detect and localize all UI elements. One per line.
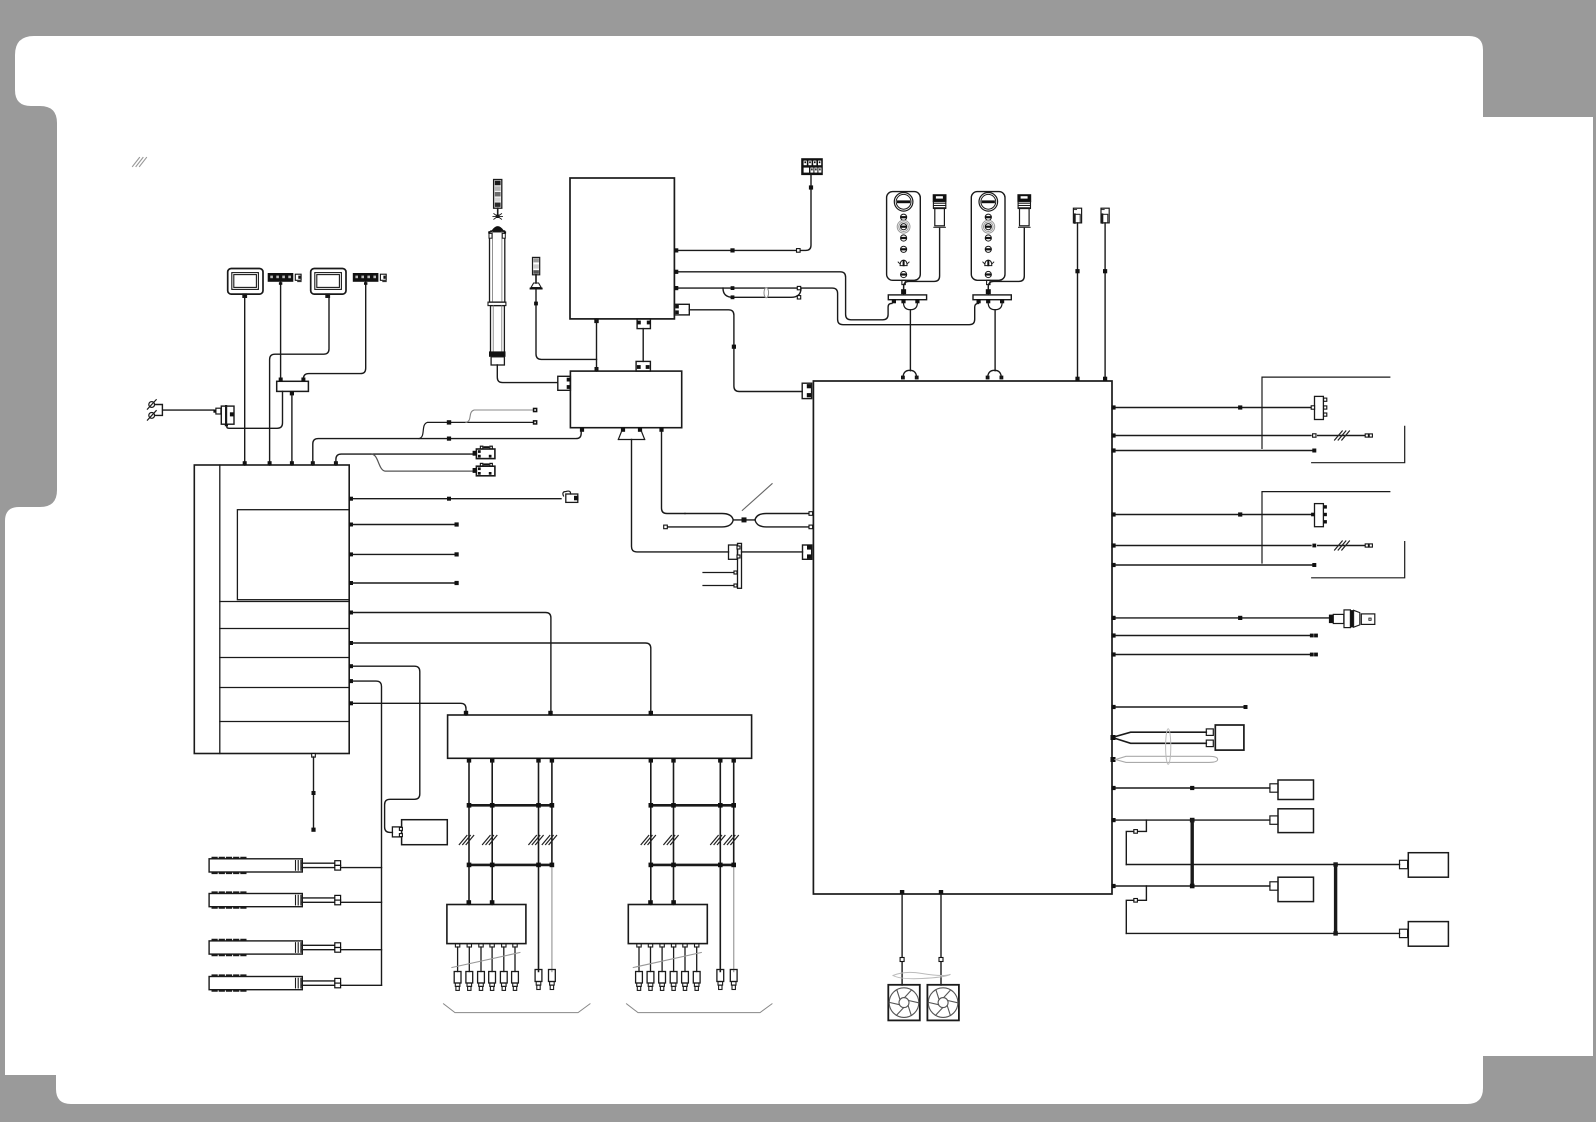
pin T1 right — [674, 248, 678, 252]
wire B1 to module B2 — [353, 666, 420, 832]
wire BB to fan F1 — [901, 894, 903, 985]
splice on B1 bottom wire — [312, 791, 316, 795]
wire junction J1 to antenna module — [227, 391, 283, 428]
pin B3 bottom — [467, 758, 471, 762]
engine ECU box T1 — [570, 178, 674, 319]
spark plug boot — [695, 944, 699, 947]
ignition harness wires group 1 — [468, 762, 470, 905]
splice bold — [1190, 818, 1195, 823]
pin J1-1 — [279, 378, 283, 382]
mast base block — [489, 351, 506, 356]
splice hatch — [542, 836, 556, 845]
crossbar bus 2b — [651, 864, 734, 867]
wire BB fused lead 2 — [1116, 545, 1368, 547]
wire J2 to twisted pair — [662, 432, 686, 514]
relay box K3 — [1278, 809, 1314, 833]
strain relief arch — [901, 376, 905, 380]
wire beacon to T1/J2 vertical — [536, 290, 597, 360]
bold feed bar 2 — [1334, 865, 1337, 934]
pin coil top — [490, 900, 495, 905]
junction box J2 — [570, 371, 681, 428]
terminal end — [455, 522, 459, 526]
spark plug boot — [513, 944, 517, 947]
under brace 1 — [444, 1004, 591, 1013]
aux tap line 2 — [466, 410, 533, 422]
splice below keypad — [809, 185, 813, 189]
pin J2 bottom — [580, 428, 584, 432]
rocker switch SW2 — [1101, 208, 1109, 223]
terminal end — [455, 581, 459, 585]
ground terminal G2 — [149, 413, 155, 419]
pin B3 top — [548, 711, 552, 715]
branch to fuse tap 2 — [1138, 886, 1147, 900]
splice — [1190, 786, 1194, 790]
pin BB right — [1111, 512, 1115, 516]
splice — [1075, 269, 1079, 273]
shield capsule — [764, 288, 769, 298]
splice hatch — [664, 836, 678, 845]
pendant terminal bar — [888, 295, 926, 300]
stack light stem and coupling — [497, 208, 499, 215]
pendant control P1 — [887, 192, 921, 281]
connector bump under T1 — [637, 319, 650, 329]
inline connector pair — [335, 895, 341, 900]
strain relief arch — [986, 376, 990, 380]
pin B3 bottom — [718, 758, 722, 762]
wire J2 gland to bus bar — [632, 440, 729, 552]
inline connector pair — [335, 943, 341, 948]
pin B1 bottom — [312, 754, 316, 758]
pendant plug connector — [1018, 195, 1030, 227]
wire pendant to main box — [909, 310, 911, 371]
probe sensor pin — [1111, 735, 1116, 740]
microswitch — [473, 463, 495, 476]
shielded cable return loop — [723, 288, 801, 297]
rocker switch SW1 — [1073, 208, 1081, 223]
spark plug boot — [683, 944, 687, 947]
connector stub BB left lower — [803, 545, 812, 559]
pin BB top — [1103, 377, 1107, 381]
aux tap line 1 — [419, 422, 533, 438]
pin coil top — [467, 900, 472, 905]
wire mast to J2 stub — [497, 365, 558, 383]
pin BB right — [1111, 818, 1115, 822]
twist center link — [733, 519, 755, 521]
harness slash — [452, 953, 520, 968]
inline connector pair — [335, 978, 341, 983]
pin T1 bottom — [594, 319, 598, 323]
button strip panel S2 — [353, 273, 386, 282]
wire plug to pendant pin — [988, 229, 1024, 290]
inline connector pair — [335, 861, 341, 866]
cut mark — [1335, 541, 1350, 550]
wire strip to trunk — [341, 867, 382, 869]
revision hatch mark — [133, 158, 147, 167]
terminal end — [1312, 449, 1316, 453]
strip lead wires — [302, 898, 335, 902]
pin BB right — [1111, 616, 1115, 620]
ignition harness wires group 2 — [650, 762, 652, 905]
wire B1 to diagnostic connector CN1 — [353, 498, 561, 500]
glow probe capsule — [1111, 757, 1116, 762]
control box B1 — [194, 465, 349, 754]
pin BB right — [1111, 405, 1115, 409]
pin J1-2 — [301, 378, 305, 382]
bracket group 2 top rail — [1262, 492, 1390, 563]
pin B1 right — [349, 641, 353, 645]
wire fuse tap 1 to load line — [1126, 831, 1134, 864]
twisted pair lower conductor — [667, 520, 733, 527]
pin B3 bottom — [490, 758, 494, 762]
stack light L2 — [494, 180, 502, 209]
crossbar bus 1b — [469, 864, 552, 867]
connector stub BB left upper — [802, 383, 811, 398]
junction box J1 — [277, 381, 309, 391]
wire monitor M1 to control box — [244, 297, 246, 465]
connector bump on J2 top — [636, 361, 650, 371]
twisted pair right conductors — [755, 514, 809, 527]
wire T1 bump to J2 bump — [642, 329, 644, 362]
bus bar B4 — [738, 543, 742, 588]
stub — [1400, 929, 1408, 937]
branch to microswitch SW4 — [372, 454, 473, 471]
wire B1 to relay bar pin 3 — [353, 643, 651, 715]
pin BB right — [1111, 884, 1115, 888]
pin B1 right — [349, 664, 353, 668]
stub — [1270, 882, 1278, 890]
splice hatch — [724, 836, 738, 845]
mast cylinder upper — [488, 231, 506, 302]
wire T1 to pendant P1 — [678, 272, 892, 320]
shielded cable upper conductor — [678, 288, 979, 325]
pin J2 bottom — [621, 428, 625, 432]
crossbar bus 1a — [469, 804, 552, 807]
pin J2 top — [595, 367, 599, 371]
cut mark — [1335, 431, 1350, 440]
wire strip to trunk — [341, 984, 382, 986]
splice — [1238, 512, 1242, 516]
splice hatch — [641, 836, 655, 845]
wire B1 to relay bar pin 2 — [353, 613, 551, 716]
sensor strip bar R1 — [209, 858, 302, 873]
pin B1 top — [243, 461, 247, 465]
load box M1 — [1408, 853, 1448, 878]
wire B1 trunk to sensor strips — [353, 681, 382, 985]
bracket group 1 bottom rail — [1312, 426, 1405, 462]
splice — [730, 248, 734, 252]
strip lead wires — [302, 863, 335, 867]
main harness box BB — [813, 381, 1112, 894]
load line 1 — [1126, 864, 1399, 866]
diagnostic pigtail connector CN1 — [563, 491, 579, 502]
wire junction J1 to control box — [291, 395, 293, 465]
bracket group 2 bottom rail — [1312, 542, 1405, 578]
wire BB fused lead 1 — [1116, 435, 1368, 437]
cable loop marks — [893, 972, 950, 975]
microswitch — [473, 446, 495, 459]
wire BB spare 635 — [1116, 635, 1312, 637]
spare tap lines on bus bar — [703, 573, 735, 586]
display monitor M1 — [228, 269, 263, 298]
stub — [1270, 816, 1278, 824]
pin BB bottom 2 — [939, 890, 943, 894]
twisted pair upper conductor — [685, 514, 733, 520]
wire monitor M2 to control box — [270, 297, 329, 465]
pin B1 top — [311, 461, 315, 465]
pin B1 top — [268, 461, 272, 465]
pin J1-3 — [290, 391, 294, 395]
wire B1 to microswitch SW3 — [336, 454, 473, 465]
terminal end — [455, 552, 459, 556]
pin B1 right — [349, 679, 353, 683]
pin coil top — [648, 900, 653, 905]
cable loop under bar — [904, 303, 918, 309]
branch to fuse tap 1 — [1138, 820, 1147, 831]
wire BB to connector CN2 — [1116, 407, 1313, 409]
wire BB spare lead 2 — [1116, 564, 1313, 566]
strip lead wires — [302, 945, 335, 949]
sensor strip bar R4 — [209, 975, 302, 990]
sensor strip bar R2 — [209, 892, 302, 907]
connector CN3 3-pin — [1315, 504, 1324, 527]
pin B1 right — [349, 701, 353, 705]
antenna module U2 — [213, 406, 234, 426]
terminal with dot — [533, 408, 538, 413]
spark plug boot — [490, 944, 494, 947]
pin T1 right — [674, 270, 678, 274]
spark plug boot — [671, 944, 675, 947]
connector CN2 3-pin — [1315, 396, 1324, 419]
wire switch to main box — [1077, 223, 1079, 377]
display monitor M2 — [311, 269, 346, 298]
pin BB right — [1111, 543, 1115, 547]
accessory power socket X1 — [1329, 610, 1375, 628]
twist junction — [742, 517, 747, 522]
wire BB to connector CN3 — [1116, 514, 1313, 516]
spark plug boot — [502, 944, 506, 947]
wire BB to fan F2 — [940, 894, 942, 985]
ground terminal G1 — [149, 402, 155, 408]
beacon lamp L1 — [530, 257, 543, 289]
harness slash — [633, 953, 701, 968]
pin BB bottom 1 — [900, 890, 904, 894]
stub — [1400, 860, 1408, 868]
pin B3 bottom — [732, 758, 736, 762]
pin coil top — [671, 900, 676, 905]
splice — [1103, 269, 1107, 273]
wire BB spare lead 1 — [1116, 450, 1313, 452]
pin T1 right — [674, 286, 678, 290]
pin B1 right — [349, 523, 353, 527]
strip lead wires — [302, 981, 335, 985]
pin BB right — [1111, 448, 1115, 452]
module B2 — [402, 820, 448, 845]
spark plug boot — [637, 944, 641, 947]
splice bold — [1190, 884, 1195, 889]
relay bar B3 — [448, 715, 752, 758]
wire BB spare 654 — [1116, 654, 1312, 656]
pin B3 bottom — [536, 758, 540, 762]
cable tie ellipse — [1166, 729, 1171, 765]
pin B3 bottom — [671, 758, 675, 762]
pin B1 top — [290, 461, 294, 465]
sensor strip bar R3 — [209, 940, 302, 955]
wire B1 spare 3 — [353, 582, 457, 584]
pin BB top — [1075, 377, 1079, 381]
spark plug boot — [455, 944, 459, 947]
splice — [1238, 405, 1242, 409]
crossbar bus 2a — [651, 804, 734, 807]
splice bold — [1333, 862, 1337, 866]
load box M2 — [1408, 922, 1448, 947]
spark plug boot — [648, 944, 652, 947]
relay box K2 — [1278, 780, 1314, 800]
pendant plug connector — [933, 195, 945, 227]
connector stub on J2 left — [558, 376, 571, 390]
bracket group 1 top rail — [1262, 377, 1390, 448]
antenna dome — [492, 227, 503, 231]
bold feed bar 1 — [1190, 820, 1193, 886]
wire strip to trunk — [341, 949, 382, 951]
terminal end — [1244, 705, 1248, 709]
wire BB spare 707 — [1116, 706, 1245, 708]
terminal with dot — [533, 420, 538, 425]
ignition coil pack T1 — [447, 905, 526, 944]
wire BB to accessory socket — [1116, 617, 1329, 619]
pin B3 bottom — [550, 758, 554, 762]
pin B1 right — [349, 611, 353, 615]
cooling fan — [888, 985, 920, 1021]
wire keypad to T1 — [678, 175, 811, 251]
pin BB right — [1111, 705, 1115, 709]
splice — [447, 420, 451, 424]
pin B3 top — [649, 711, 653, 715]
wire J2 pin to B1 riser — [313, 432, 581, 465]
wire BB to relay K2 — [1116, 787, 1270, 789]
terminal end — [311, 828, 315, 832]
slash mark — [742, 484, 772, 511]
mast collar — [488, 302, 506, 306]
terminal end — [1312, 563, 1316, 567]
load line 2 — [1126, 932, 1399, 934]
splice hatch — [711, 836, 725, 845]
wire T1 to J2 — [596, 319, 598, 371]
wire strip S1 to junction J1 — [280, 282, 282, 378]
pin J2 bottom — [659, 428, 663, 432]
spark plug boot — [660, 944, 664, 947]
probe leads — [1116, 732, 1207, 743]
cooling fan — [927, 985, 959, 1021]
splice hatch — [529, 836, 543, 845]
pin B1 right — [349, 552, 353, 556]
keypad K1 — [802, 159, 822, 175]
wire T1 stub to main harness — [689, 310, 802, 392]
pin B3 top — [464, 711, 468, 715]
wire BB to relay K3 — [1116, 819, 1270, 821]
spark plug boot — [479, 944, 483, 947]
cable gland under J2 — [618, 432, 644, 440]
relay box K4 — [1278, 877, 1314, 901]
splice hatch — [459, 836, 473, 845]
wire B1 to relay bar pin 1 — [353, 703, 466, 715]
wire B1 spare 2 — [353, 553, 457, 555]
pin BB right — [1111, 633, 1115, 637]
splice — [447, 437, 451, 441]
pin B1 top — [334, 461, 338, 465]
splice on beacon wire — [534, 302, 538, 306]
power plug leads group1 — [535, 970, 542, 982]
stub — [1270, 784, 1278, 792]
pin J2 bottom — [638, 428, 642, 432]
pin BB right — [1111, 786, 1115, 790]
cable loop under bar — [988, 303, 1002, 309]
ignition coil pack T2 — [628, 905, 707, 944]
wire B1 bottom stub — [313, 757, 315, 830]
probe module box — [1215, 725, 1244, 750]
wire ground tie — [155, 405, 214, 416]
splice bold — [1333, 931, 1337, 935]
connector stub on T1 right — [674, 304, 689, 315]
pendant terminal bar — [973, 295, 1011, 300]
wire B1 spare 1 — [353, 524, 457, 526]
divider lines of B1 — [220, 602, 349, 722]
splice — [732, 345, 736, 349]
pin BB right — [1111, 563, 1115, 567]
pendant control P2 — [971, 192, 1005, 281]
wire bus bar to big box stub — [742, 551, 803, 553]
wire pendant to main box — [994, 310, 996, 371]
mast cylinder lower — [491, 306, 505, 353]
splice — [1238, 616, 1242, 620]
wire plug to pendant pin — [904, 229, 940, 290]
pin BB right — [1111, 433, 1115, 437]
wire switch to main box — [1104, 223, 1106, 377]
wire strip to trunk — [341, 901, 382, 903]
wire fuse tap 2 to load line 2 — [1126, 900, 1134, 933]
button strip panel S1 — [268, 273, 301, 282]
pin B1 right — [349, 497, 353, 501]
splice — [447, 497, 451, 501]
spark plug boot — [467, 944, 471, 947]
pin B1 right — [349, 581, 353, 585]
wire strip S2 to junction J1 — [303, 282, 365, 382]
inner display panel of B1 — [237, 510, 349, 600]
wire BB bottom feed — [1116, 885, 1270, 887]
splice hatch — [483, 836, 497, 845]
under brace 2 — [627, 1004, 773, 1013]
connector box on bus bar — [729, 545, 738, 559]
pin BB right — [1111, 652, 1115, 656]
pin B3 bottom — [649, 758, 653, 762]
